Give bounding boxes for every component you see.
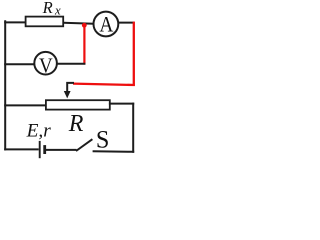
svg-text:V: V: [39, 55, 53, 78]
svg-text:R: R: [68, 111, 84, 137]
voltmeter V: [34, 52, 57, 75]
wire: voltmeter to red vertical: [57, 63, 86, 65]
wire: rail to rheostat: [4, 104, 47, 106]
svg-text:x: x: [54, 4, 61, 18]
battery short plate: [43, 145, 46, 154]
wire: rheostat to right rail: [109, 103, 134, 105]
wire: top left (rail to Rx): [4, 21, 26, 23]
wire: bottom right segment (under S): [93, 150, 135, 153]
svg-text:S: S: [96, 126, 109, 153]
wire: left rail: [4, 20, 6, 150]
ammeter A: [94, 12, 119, 37]
wire: rail to voltmeter: [4, 63, 35, 65]
svg-text:R: R: [42, 0, 53, 17]
red wire: junction down to voltmeter wire: [83, 23, 85, 65]
svg-text:A: A: [99, 13, 113, 36]
red wire: right vertical: [133, 22, 135, 86]
rheostat R box: [46, 100, 110, 109]
wire: right rail lower: [132, 103, 134, 153]
wire: ammeter to top-right corner: [118, 22, 135, 24]
svg-text:E,r: E,r: [26, 121, 52, 142]
wire: bottom left (rail to battery): [4, 148, 39, 150]
label S: [96, 126, 109, 153]
battery E,r : long plate: [39, 141, 41, 158]
red wire: horizontal to wiper: [73, 84, 135, 85]
switch S lever: [76, 139, 92, 151]
resistor Rx: [26, 17, 64, 27]
wire: Rx to ammeter: [63, 23, 94, 24]
wiper arrow (black corner + arrow): [67, 83, 74, 92]
node: red junction dot: [82, 23, 87, 28]
wire: battery to switch: [46, 149, 77, 151]
